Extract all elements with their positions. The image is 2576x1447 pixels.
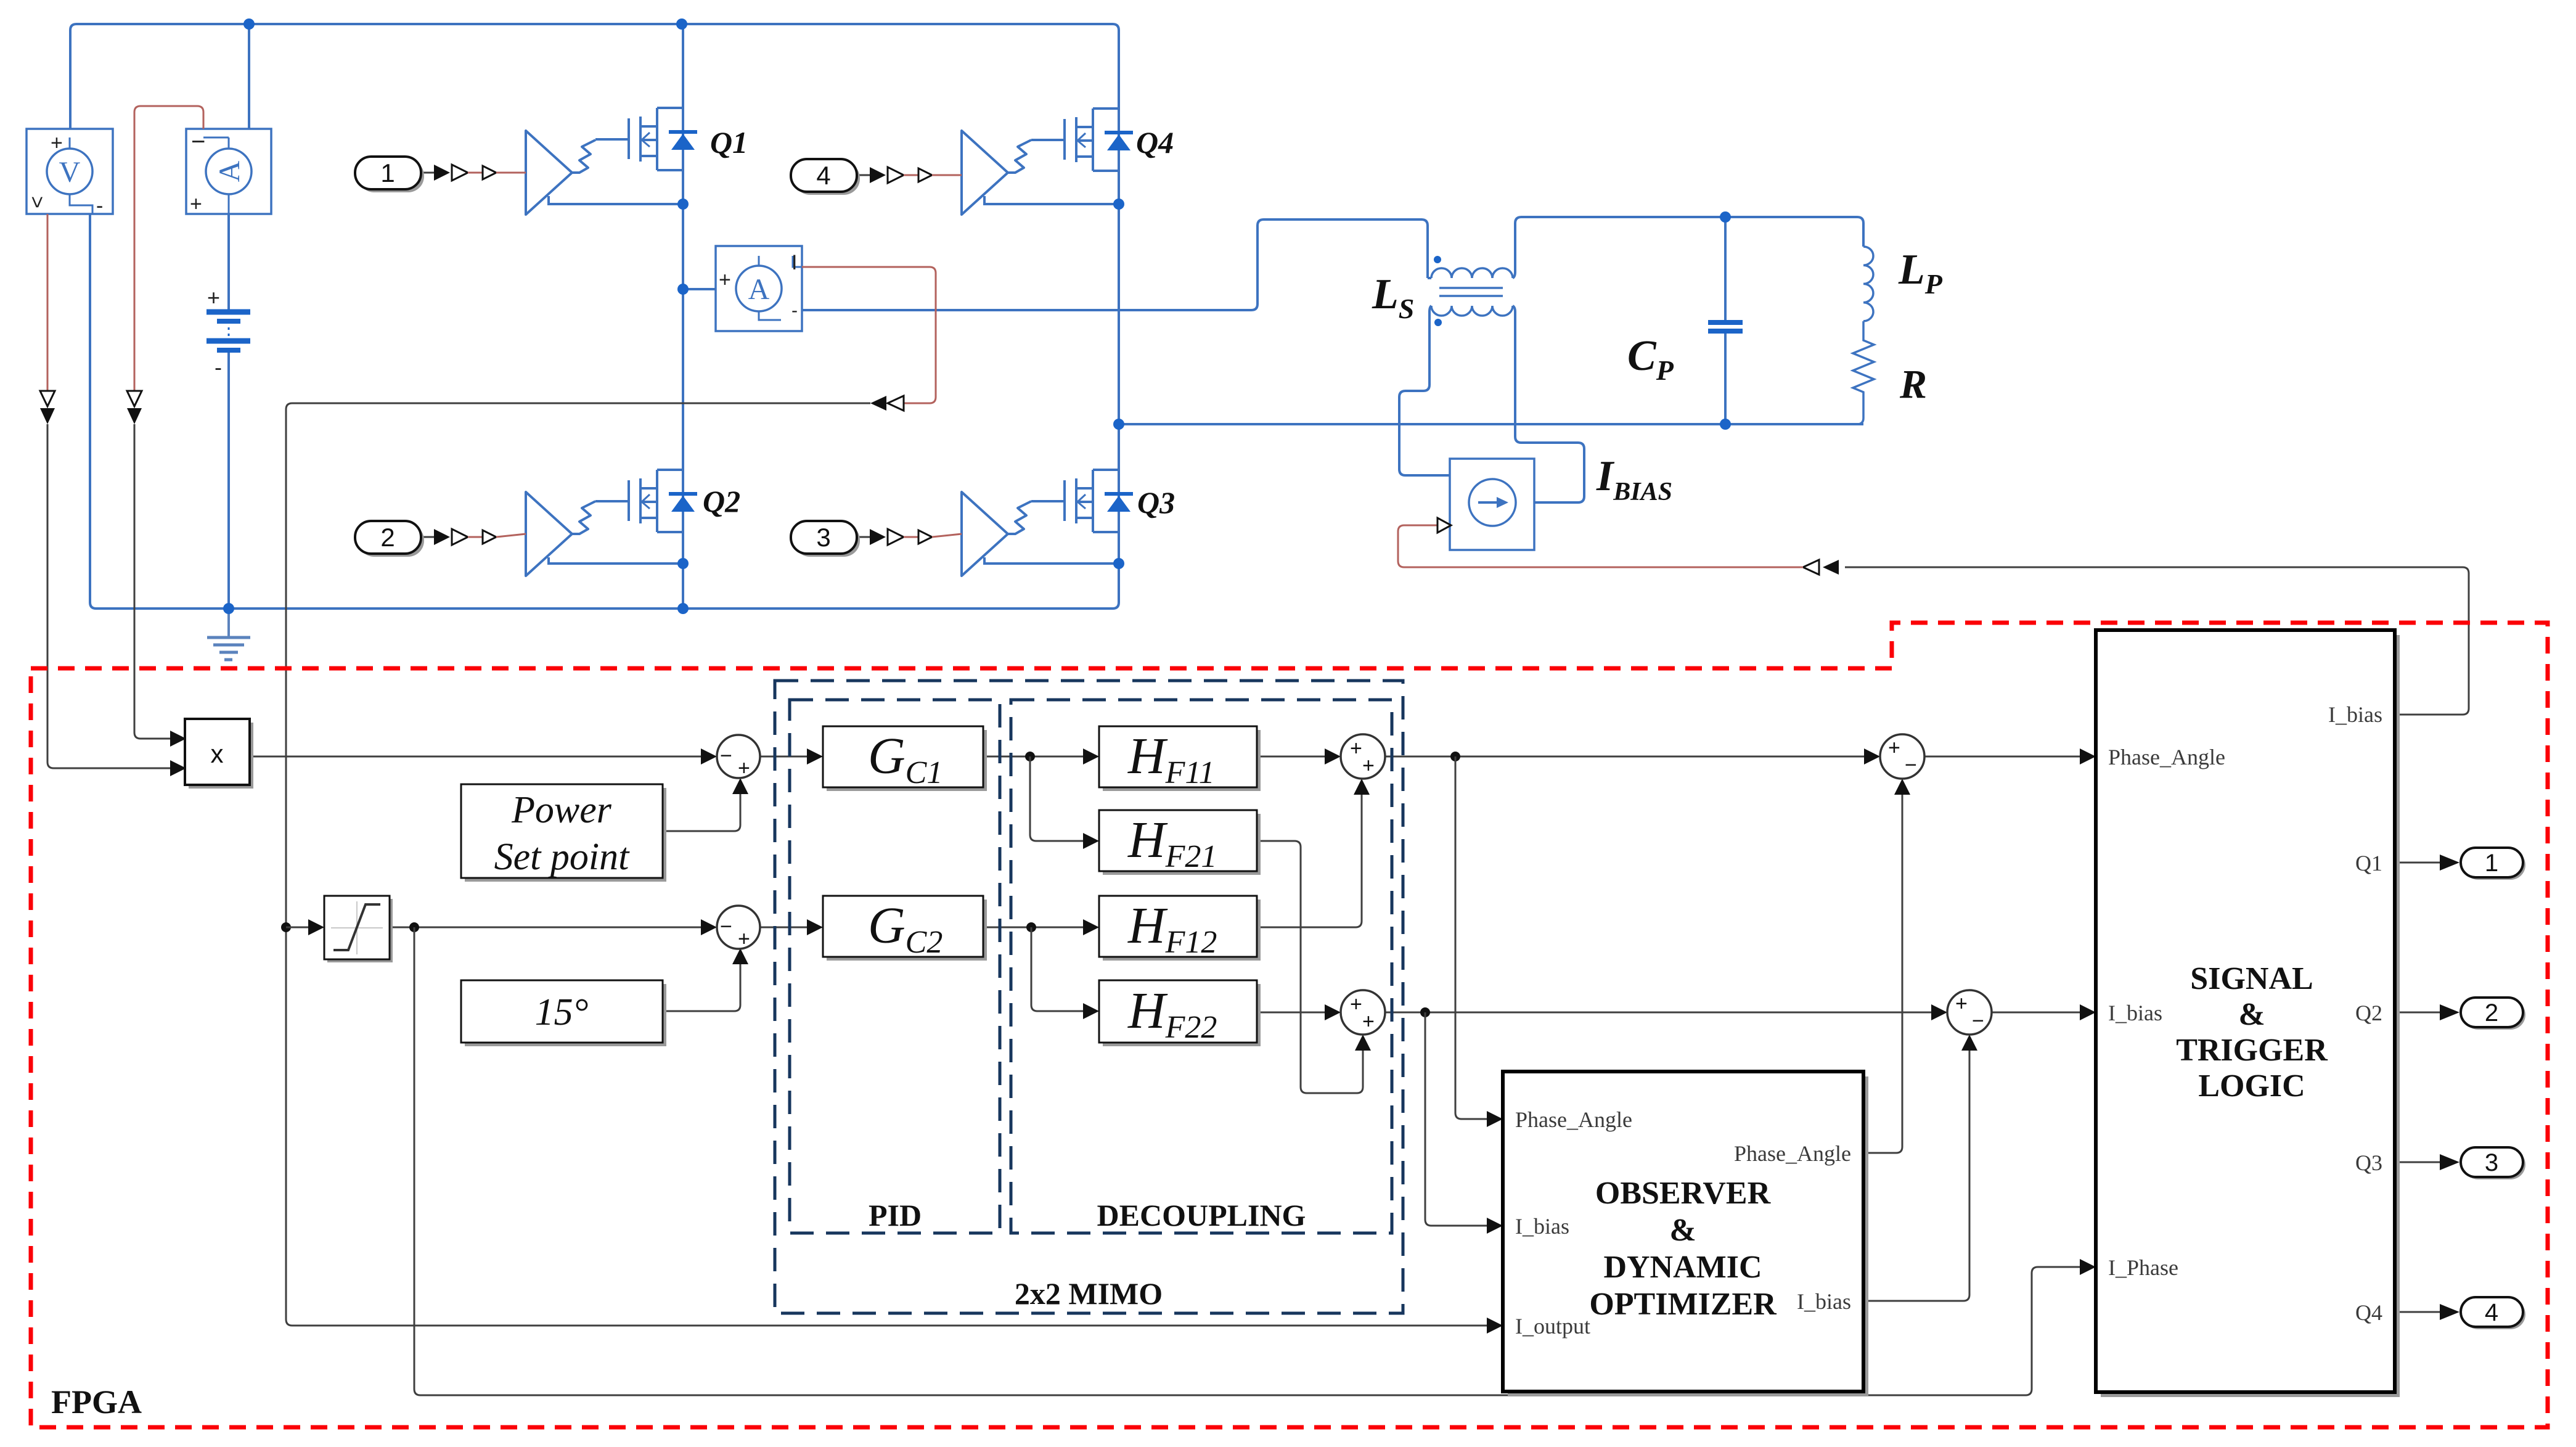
node: Cp top <box>1720 211 1731 223</box>
ammeter A2 (bridge mid) box <box>716 246 802 331</box>
port 3 input chain <box>857 529 962 545</box>
arrow into port 3 <box>2440 1154 2459 1170</box>
node: GC1 branch <box>1025 752 1035 761</box>
wire: GC2 branch to HF22 <box>1031 927 1083 1011</box>
sum SB circle <box>1341 990 1385 1035</box>
transformer T1 secondary right lead to Ibias source right <box>1513 306 1584 502</box>
port 2 outport oval <box>2461 998 2525 1030</box>
svg-text:&: & <box>2238 997 2265 1032</box>
SIGNAL port labels <box>2108 702 2382 1325</box>
arrow open left feedback <box>1803 560 1819 575</box>
transistor Q1 mosfet <box>595 108 697 170</box>
svg-text:Q2: Q2 <box>2355 1001 2382 1025</box>
HF21 block shadow <box>1103 814 1261 875</box>
svg-text:&: & <box>1669 1213 1696 1248</box>
node: top bus / left leg <box>676 18 687 30</box>
wire: SIGNAL Q4 output <box>2395 1311 2440 1313</box>
arrow into sum S2 <box>701 919 717 935</box>
node: saturation output branch <box>409 922 419 932</box>
svg-text:+: + <box>51 131 63 155</box>
arrow into OBSERVER I_bias <box>1487 1218 1503 1234</box>
port 4 input chain <box>857 167 962 183</box>
product block shadow <box>189 723 253 789</box>
node: Ibias branch <box>1420 1007 1430 1017</box>
wire: 15deg block to sum S2 <box>663 964 740 1011</box>
svg-text:Q3: Q3 <box>2355 1150 2382 1175</box>
node: saturation branch <box>281 922 291 932</box>
wire: HF21 to sum SB bottom <box>1257 841 1363 1093</box>
svg-text:+: + <box>738 756 750 780</box>
HF21 block <box>1099 810 1257 871</box>
svg-text:-: - <box>215 355 222 380</box>
wire: GC2 out to HF12 <box>983 927 1083 928</box>
transistor Q1 driver feedback wire <box>549 196 683 204</box>
wire: SIGNAL I_bias feedback (black) <box>1845 567 2469 715</box>
15 degree block <box>461 980 663 1043</box>
port 1 inport oval <box>355 157 424 192</box>
wire: bottom blue bus <box>90 214 1119 609</box>
svg-text:Q4: Q4 <box>2355 1300 2382 1325</box>
svg-text:I_Phase: I_Phase <box>2108 1255 2178 1280</box>
wire: HF11 to sum SA <box>1257 756 1325 758</box>
svg-text:2: 2 <box>380 523 395 552</box>
node: Q3 source <box>1113 558 1124 569</box>
ground symbol <box>207 609 250 660</box>
svg-text:−: − <box>720 744 732 768</box>
transistor Q4 gate driver <box>962 131 1031 215</box>
svg-text:Q1: Q1 <box>2355 851 2382 875</box>
arrow into GC1 <box>807 748 823 764</box>
sum S4 circle <box>1947 990 1992 1035</box>
arrow into saturation <box>308 919 324 935</box>
arrow into sum SA <box>1325 748 1341 764</box>
transistor Q2 mosfet <box>595 470 697 532</box>
node: Cp bottom <box>1720 419 1731 430</box>
svg-text:−: − <box>720 915 732 938</box>
wire: into saturation block <box>286 927 308 928</box>
node: top bus / battery meter <box>243 18 255 30</box>
port 1 input chain <box>421 165 526 181</box>
wire: top tank wire to Cp and Lp <box>1513 217 1863 278</box>
sum S3 circle <box>1880 734 1924 779</box>
wire: bottom tank wire <box>1119 423 1863 425</box>
svg-text:R: R <box>1899 362 1927 407</box>
svg-text:I_output: I_output <box>1515 1314 1590 1338</box>
svg-text:Power: Power <box>511 789 612 831</box>
wire: left bridge leg rail <box>682 24 684 609</box>
HF22 block shadow <box>1103 984 1261 1046</box>
transistor Q2 gate driver <box>526 492 595 576</box>
svg-text:+: + <box>738 927 750 951</box>
wire: sum SA to sum S3 phase angle line <box>1385 756 1864 758</box>
current source IBIAS arrow <box>1497 497 1508 508</box>
DECOUPLING dashed box <box>1011 700 1392 1233</box>
arrow filled left bridge current <box>870 396 886 411</box>
port 3 inport oval <box>791 521 860 557</box>
svg-text:−: − <box>1972 1009 1984 1033</box>
wire: sum S4 to SIGNAL I_bias <box>1992 1012 2080 1014</box>
tap arrows battery current <box>127 391 142 424</box>
arrow into HF12 <box>1083 919 1099 935</box>
battery B1 <box>206 312 250 350</box>
svg-text:4: 4 <box>816 161 830 190</box>
svg-text:Q3: Q3 <box>1137 485 1175 520</box>
OBSERVER port labels <box>1515 1107 1851 1338</box>
wire: feedback to IBIAS source (red) <box>1398 525 1803 567</box>
wire: voltage to product block <box>47 424 182 768</box>
node: left leg ammeter branch <box>677 284 689 295</box>
svg-text:+: + <box>719 268 731 292</box>
HF12 block shadow <box>1103 900 1261 961</box>
OBSERVER block shadow <box>1508 1076 1868 1396</box>
svg-text:PID: PID <box>869 1198 922 1232</box>
HF12 block <box>1099 896 1257 957</box>
svg-text:2x2 MIMO: 2x2 MIMO <box>1015 1276 1163 1311</box>
arrow into HF11 <box>1083 748 1099 764</box>
svg-text:+: + <box>207 285 220 310</box>
svg-text:I_bias: I_bias <box>2328 702 2382 727</box>
wire: A-meter (battery) to top bus <box>248 24 250 129</box>
svg-text:I_bias: I_bias <box>1797 1289 1851 1314</box>
transformer T1 secondary left lead to Ibias source <box>1399 306 1450 475</box>
inductor LP <box>1863 247 1873 321</box>
arrow into port 4 <box>2440 1304 2459 1320</box>
transformer T1 core <box>1439 288 1503 296</box>
capacitor CP leads <box>1724 217 1727 424</box>
wire: SIGNAL Q1 output <box>2395 862 2440 864</box>
svg-text:Phase_Angle: Phase_Angle <box>2108 745 2225 769</box>
HF11 block <box>1099 726 1257 787</box>
transistor Q4 mosfet <box>1031 109 1133 171</box>
svg-text:I_bias: I_bias <box>2108 1001 2162 1025</box>
wire: GC1 out to HF11 <box>983 756 1083 758</box>
wire: battery bottom lead <box>227 353 230 609</box>
svg-text:Q1: Q1 <box>710 125 748 160</box>
wire: GC1 branch to HF21 <box>1030 756 1083 841</box>
arrow up into sum S4 <box>1961 1035 1977 1051</box>
svg-text:DECOUPLING: DECOUPLING <box>1097 1198 1306 1232</box>
PID dashed box <box>790 700 1000 1233</box>
node: Q2 source <box>677 558 689 569</box>
svg-text:+: + <box>1362 754 1375 777</box>
svg-text:+: + <box>1362 1010 1375 1033</box>
transformer T1 primary winding <box>1431 268 1513 278</box>
svg-text:1: 1 <box>380 158 395 187</box>
arrow into port 1 <box>2440 855 2459 871</box>
svg-text:I: I <box>791 251 797 274</box>
FPGA red dashed border <box>31 623 2548 1427</box>
wire: Ibias branch to OBSERVER <box>1425 1012 1487 1226</box>
product block <box>185 719 250 785</box>
wire: HF12 to sum SA bottom <box>1257 795 1362 927</box>
svg-text:Phase_Angle: Phase_Angle <box>1734 1141 1851 1166</box>
svg-text:LOGIC: LOGIC <box>2198 1068 2305 1104</box>
node: Q4 source <box>1113 199 1124 210</box>
svg-text:3: 3 <box>816 523 830 552</box>
svg-text:A: A <box>748 273 770 306</box>
svg-text:1: 1 <box>2485 850 2498 877</box>
transistor Q3 gate driver <box>962 492 1031 576</box>
arrow up into sum SA <box>1354 779 1370 795</box>
wire: product output to sum S1 <box>250 756 701 758</box>
wire: sum S1 to GC1 <box>760 756 807 758</box>
tap arrows voltage <box>40 391 55 424</box>
GC2 block shadow <box>827 900 987 961</box>
svg-text:15°: 15° <box>535 991 589 1033</box>
arrow into SIGNAL Phase_Angle <box>2080 748 2096 764</box>
port 2 inport oval <box>355 521 424 557</box>
arrow into product input 2 <box>170 760 186 776</box>
wire: OBSERVER Phase_Angle out to sum S3 bottom <box>1863 795 1902 1153</box>
svg-text:OPTIMIZER: OPTIMIZER <box>1589 1287 1777 1322</box>
wire: saturation out to sum S2 <box>390 927 701 928</box>
wire: OBSERVER I_bias out to sum S4 bottom <box>1863 1051 1969 1301</box>
wire: sum SB to sum S4 Ibias line <box>1385 1012 1931 1014</box>
svg-text:FPGA: FPGA <box>51 1383 142 1420</box>
transformer T1 primary phase dot <box>1434 256 1441 263</box>
voltmeter V1 box <box>27 129 113 214</box>
svg-text:Q2: Q2 <box>703 484 740 519</box>
resistor R <box>1853 321 1874 424</box>
arrow into SIGNAL I_bias <box>2080 1004 2096 1020</box>
arrow into OBSERVER Phase_Angle <box>1487 1111 1503 1127</box>
arrow open into IBIAS source <box>1437 518 1451 533</box>
wire: battery current to product block <box>134 424 182 739</box>
wire: HF22 to sum SB <box>1257 1012 1325 1014</box>
svg-text:A: A <box>213 160 246 182</box>
SIGNAL block shadow <box>2101 635 2400 1397</box>
node: Q1 source <box>677 199 689 210</box>
port 1 outport oval <box>2461 848 2525 880</box>
arrow open left bridge current <box>888 396 904 411</box>
HF22 block <box>1099 980 1257 1043</box>
svg-text:+: + <box>1350 737 1362 760</box>
svg-text:3: 3 <box>2485 1149 2498 1176</box>
wire: ammeter to transformer primary left <box>802 219 1428 310</box>
wire: top DC bus <box>70 24 1119 129</box>
wire: voltage measurement (red) <box>47 214 49 391</box>
sum S2 circle <box>717 906 760 949</box>
arrow up into sum S3 <box>1894 779 1910 795</box>
2x2 MIMO dashed box <box>775 681 1403 1313</box>
transformer T1 secondary phase dot <box>1434 319 1442 326</box>
saturation block shadow <box>327 899 393 962</box>
15 degree block shadow <box>465 984 666 1046</box>
arrow into HF22 <box>1083 1003 1099 1019</box>
svg-text:+: + <box>1888 736 1900 760</box>
svg-text:>: > <box>25 196 49 208</box>
arrow into sum S4 <box>1931 1004 1947 1020</box>
transistor Q3 mosfet <box>1031 470 1133 532</box>
GC2 block <box>823 896 983 957</box>
wire: A-meter branch from left rail <box>683 288 716 290</box>
svg-text:4: 4 <box>2485 1299 2498 1326</box>
arrow up into sum S1 <box>732 778 748 794</box>
svg-text:−: − <box>191 128 205 155</box>
wire: bridge current measurement (red) <box>802 267 936 403</box>
port 4 inport oval <box>791 159 860 195</box>
arrow filled left feedback <box>1823 560 1839 575</box>
wire: phase angle branch to OBSERVER <box>1455 756 1487 1119</box>
node: right leg tank wire <box>1113 419 1124 430</box>
svg-text:x: x <box>211 739 224 768</box>
wire: SIGNAL Q3 output <box>2395 1162 2440 1163</box>
svg-text:2: 2 <box>2485 999 2498 1027</box>
saturation block icon <box>331 901 383 954</box>
HF11 block shadow <box>1103 730 1261 791</box>
arrow into GC2 <box>807 919 823 935</box>
arrow up into sum S2 <box>732 948 748 964</box>
wire: right bridge leg rail <box>1118 109 1120 532</box>
svg-text:Set point: Set point <box>494 836 630 878</box>
arrow into sum S1 <box>701 748 717 764</box>
ammeter A1 (battery) box <box>186 129 271 214</box>
svg-text:Q4: Q4 <box>1136 125 1174 160</box>
arrow into SIGNAL I_Phase <box>2080 1259 2096 1275</box>
wire: Power Set point to sum S1 <box>663 794 740 831</box>
svg-text:−: − <box>1905 753 1917 777</box>
node: bottom bus / left leg <box>677 603 689 614</box>
svg-text:-: - <box>96 194 103 218</box>
wire: battery top lead <box>227 214 230 309</box>
arrow into OBSERVER I_output <box>1487 1318 1503 1334</box>
svg-text:DYNAMIC: DYNAMIC <box>1603 1250 1762 1285</box>
node: GC2 branch <box>1026 922 1036 932</box>
transistor Q1 gate driver <box>526 131 595 215</box>
svg-text:-: - <box>791 300 798 321</box>
node: phase angle branch <box>1450 752 1460 761</box>
sum SA circle <box>1341 734 1385 779</box>
arrow into sum S3 <box>1864 748 1880 764</box>
port 2 input chain <box>421 529 526 545</box>
GC1 block shadow <box>827 730 987 791</box>
svg-text:TRIGGER: TRIGGER <box>2176 1033 2328 1068</box>
svg-text:+: + <box>1350 993 1362 1016</box>
wire: bridge current to saturation and I_output <box>286 403 1487 1326</box>
transformer T1 primary left lead <box>1428 277 1431 279</box>
port 3 outport oval <box>2461 1147 2525 1179</box>
OBSERVER block <box>1503 1072 1863 1392</box>
arrow up into sum SB <box>1355 1035 1371 1051</box>
port 4 outport oval <box>2461 1297 2525 1329</box>
GC1 block <box>823 726 983 787</box>
sum S1 circle <box>717 735 760 778</box>
transistor Q2 driver feedback wire <box>549 557 683 564</box>
svg-text:+: + <box>190 192 202 216</box>
arrow into HF21 <box>1083 833 1099 849</box>
saturation block <box>324 896 390 959</box>
transistor Q4 driver feedback wire <box>984 196 1119 204</box>
svg-text:+: + <box>1955 992 1968 1015</box>
wire: SIGNAL Q2 output <box>2395 1012 2440 1014</box>
wire: battery current measurement (red) <box>134 106 203 391</box>
svg-text:OBSERVER: OBSERVER <box>1595 1176 1772 1211</box>
SIGNAL block <box>2096 630 2395 1392</box>
arrow into sum SB <box>1325 1004 1341 1020</box>
transformer T1 secondary winding <box>1431 306 1513 316</box>
wire: sum S3 to SIGNAL Phase_Angle <box>1924 756 2080 758</box>
svg-text:Phase_Angle: Phase_Angle <box>1515 1107 1632 1132</box>
capacitor CP plates <box>1708 322 1743 331</box>
current source IBIAS box <box>1450 459 1534 550</box>
svg-text:I_bias: I_bias <box>1515 1214 1569 1239</box>
wire: phase limit branch to I_Phase <box>414 927 2080 1395</box>
Power Set point block <box>461 784 663 878</box>
POWER-CIRCUIT <box>70 24 1874 609</box>
svg-text:SIGNAL: SIGNAL <box>2190 961 2313 996</box>
svg-text:V: V <box>59 156 81 189</box>
Power Set point block shadow <box>465 788 666 882</box>
wire: sum S2 to GC2 <box>760 927 807 928</box>
arrow into product input 1 <box>170 731 186 747</box>
arrow into port 2 <box>2440 1004 2459 1020</box>
node: bottom bus / battery <box>223 603 234 614</box>
transistor Q3 driver feedback wire <box>984 557 1119 564</box>
